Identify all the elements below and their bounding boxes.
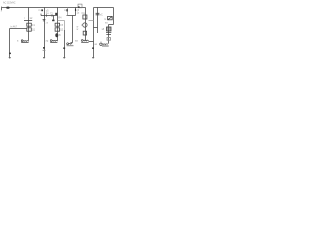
svg-text:m: m: [64, 9, 66, 12]
svg-text:w: w: [77, 28, 79, 31]
svg-text:m: m: [38, 9, 40, 12]
svg-text:Fm: Fm: [82, 12, 85, 15]
svg-text:zC: zC: [100, 13, 103, 16]
svg-text:in 4k7: in 4k7: [11, 26, 18, 29]
svg-text:tr: tr: [100, 41, 102, 44]
svg-text:AC 115VAC: AC 115VAC: [3, 1, 16, 4]
